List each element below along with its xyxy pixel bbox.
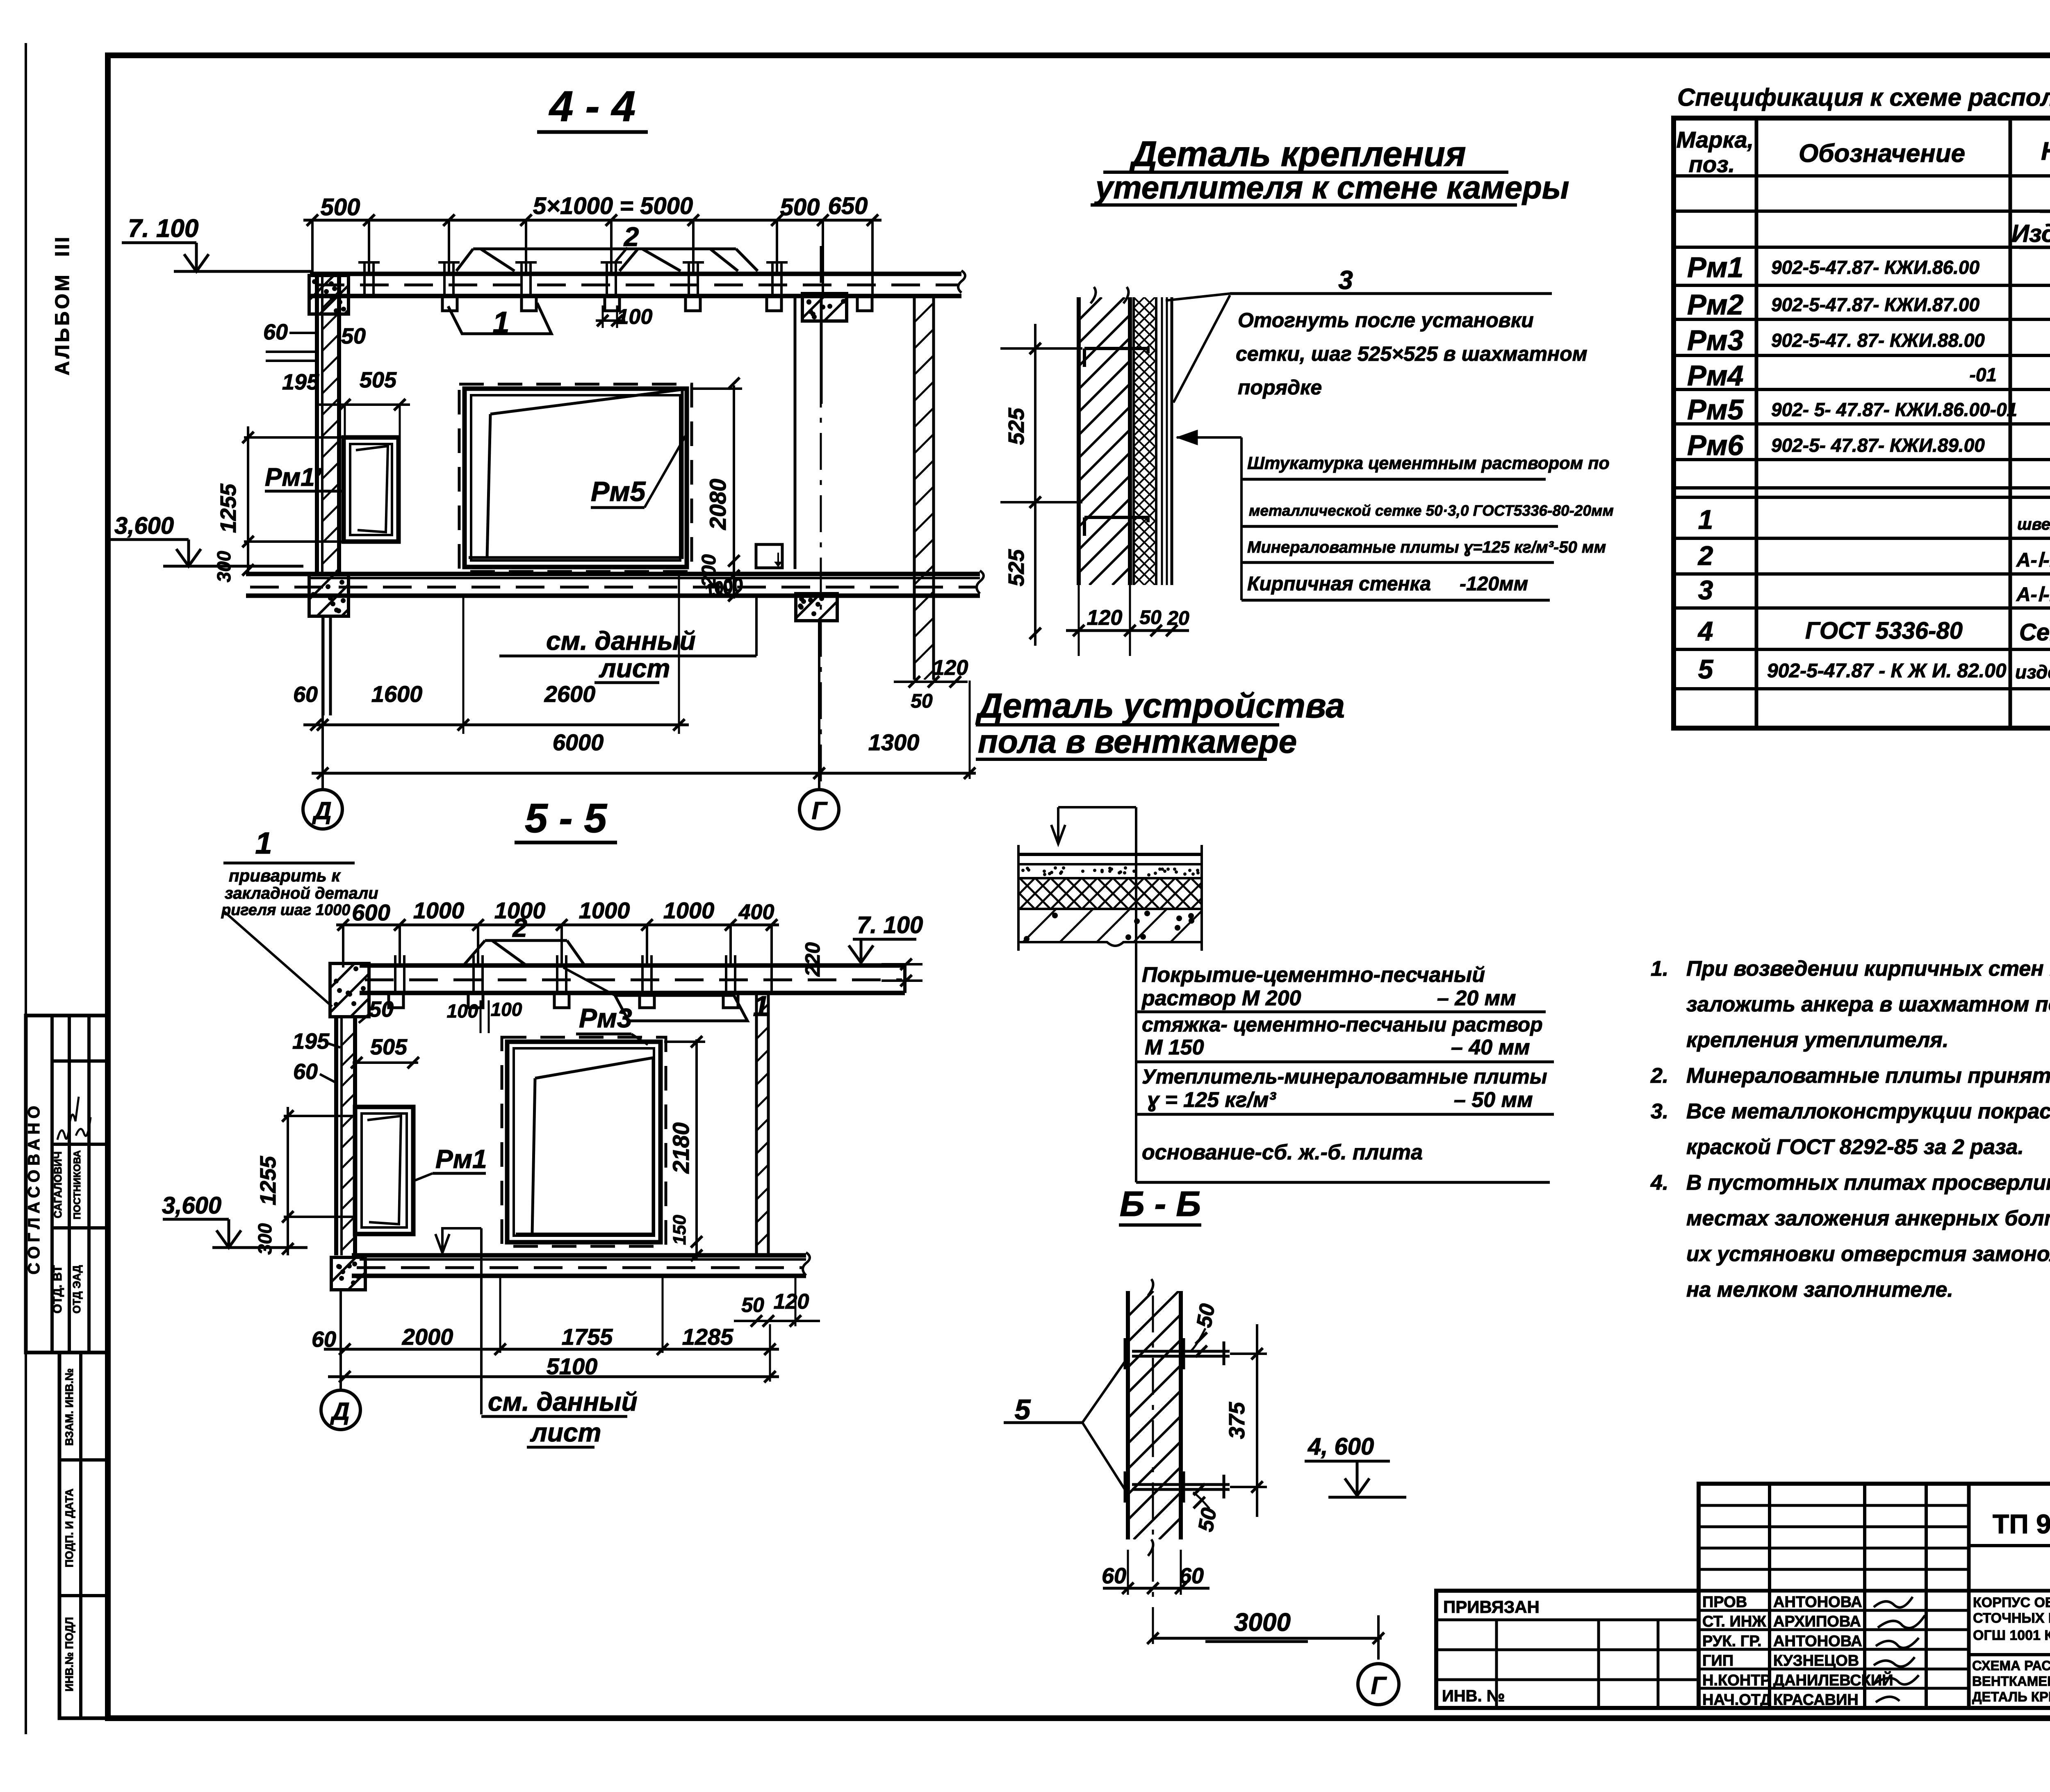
svg-text:60: 60 — [293, 682, 318, 707]
dims 60 / 60 (section Б-Б) — [1102, 1550, 1209, 1595]
svg-text:1000: 1000 — [663, 897, 715, 923]
left brick wall (section 4-4) — [37, 274, 642, 575]
svg-text:902-5-47.87- КЖИ.87.00: 902-5-47.87- КЖИ.87.00 — [1771, 294, 1980, 315]
level mark 3.600 (section 5-5) — [162, 1192, 307, 1248]
sheet edge line — [25, 43, 27, 1734]
ceiling slab (section 4-4) — [310, 271, 965, 296]
svg-text:60: 60 — [312, 1327, 336, 1352]
svg-text:– 20 мм: – 20 мм — [1437, 986, 1516, 1010]
vertical chain 1255 / 300 (section 5-5) — [254, 1107, 355, 1255]
svg-text:СХЕМА РАСПОЛОЖЕНИЯ ЭЛЕМЕНТОВ: СХЕМА РАСПОЛОЖЕНИЯ ЭЛЕМЕНТОВ — [1972, 1658, 2050, 1673]
section Б-Б title — [1119, 1184, 1201, 1225]
title block outer — [1436, 1484, 2050, 1708]
table row Изделие закладное — [2011, 220, 2050, 248]
svg-text:500: 500 — [321, 194, 360, 221]
svg-text:ОТД. ВТ: ОТД. ВТ — [51, 1265, 64, 1314]
svg-text:Б - Б: Б - Б — [1120, 1184, 1201, 1224]
svg-text:Все металлоконструкции покра: Все металлоконструкции покрасить масляно… — [1686, 1100, 2050, 1123]
label 2 with leader (section 4-4) — [615, 221, 639, 262]
см. данный лист note (section 5-5) — [435, 1228, 638, 1447]
svg-text:ОТД ЭАД: ОТД ЭАД — [71, 1265, 83, 1314]
floor slab (section 5-5) — [352, 1252, 810, 1276]
anchor bolt ticks on slab (section 5-5) — [395, 955, 735, 993]
svg-text:лист: лист — [530, 1418, 601, 1447]
top concrete pad on left wall — [271, 276, 408, 314]
notes list 1..4 — [1650, 957, 2050, 1302]
svg-text:525: 525 — [1004, 549, 1029, 586]
embedded frame Рм1 (section 5-5) — [355, 1107, 413, 1234]
anchor plate item 2 trapezoid (section 5-5) — [465, 913, 584, 964]
labels 100 100 (section 5-5) — [447, 999, 522, 1033]
svg-text:2: 2 — [1697, 540, 1713, 571]
specification table grid — [1674, 118, 2050, 728]
svg-text:Н.КОНТР: Н.КОНТР — [1702, 1672, 1771, 1689]
embedded frame Рм3 (section 5-5) — [502, 1037, 666, 1246]
svg-text:2600: 2600 — [544, 681, 596, 707]
vertical dim 2180 / 150 (section 5-5) — [664, 1036, 705, 1261]
svg-text:– 40 мм: – 40 мм — [1451, 1036, 1530, 1059]
svg-text:400: 400 — [738, 900, 774, 924]
arrow leader to plaster (detail) — [1177, 430, 1241, 600]
svg-text:поз.: поз. — [1689, 151, 1735, 177]
svg-text:III: III — [52, 235, 73, 257]
svg-text:СТОЧНЫХ ВОД С 5 ЦЕНТРИФУГАМИ: СТОЧНЫХ ВОД С 5 ЦЕНТРИФУГАМИ — [1973, 1610, 2050, 1626]
svg-text:местах заложения анкерных б: местах заложения анкерных болтов поз. 2.… — [1686, 1207, 2050, 1230]
note приварить к закладной детали (section 5-5) — [221, 826, 378, 1006]
svg-text:60: 60 — [263, 320, 288, 344]
table row pos 2 — [1697, 540, 2050, 571]
anchor plate item 2: trapezoid over slab — [456, 249, 758, 271]
svg-text:50: 50 — [369, 997, 394, 1022]
svg-text:Спецификация к схеме располож: Спецификация к схеме расположения элемен… — [1677, 84, 2050, 111]
label Рм1 with leader (section 5-5) — [414, 1144, 487, 1181]
axis circle Д (section 5-5) — [321, 1290, 360, 1430]
svg-text:2180: 2180 — [668, 1123, 694, 1174]
table row Рм4 — [1687, 360, 2050, 392]
svg-text:изделие закладное МН 2: изделие закладное МН 2 — [2015, 661, 2050, 683]
svg-text:Деталь устройства: Деталь устройства — [975, 686, 1345, 725]
svg-text:Рм6: Рм6 — [1687, 429, 1744, 461]
svg-text:1300: 1300 — [868, 729, 920, 755]
svg-text:120: 120 — [1087, 606, 1123, 630]
svg-text:Сетка 50-3,0: Сетка 50-3,0 — [2019, 619, 2050, 646]
svg-text:7. 100: 7. 100 — [857, 912, 923, 938]
svg-text:902-5-47.87 - К Ж И. 82.00: 902-5-47.87 - К Ж И. 82.00 — [1767, 660, 2007, 682]
svg-text:300: 300 — [254, 1223, 276, 1255]
column below floor (section 4-4) — [323, 616, 330, 715]
svg-text:1: 1 — [1698, 504, 1713, 535]
thin partition (section 4-4) — [795, 296, 821, 569]
см. данный лист note (section 4-4) — [499, 596, 756, 683]
svg-text:Рм1: Рм1 — [1687, 251, 1743, 283]
svg-text:220: 220 — [801, 942, 824, 977]
axis circle Г (section 4-4) — [799, 621, 839, 829]
dims 195 / 505 over frame — [282, 368, 410, 437]
dim 220 (section 5-5) — [801, 942, 922, 986]
svg-text:100: 100 — [447, 1000, 478, 1022]
anchor bolt 2 (section Б-Б) — [1125, 1471, 1230, 1503]
flag label 1 (section 4-4) — [448, 303, 551, 339]
dim row 5100 (section 5-5) — [328, 1324, 779, 1382]
svg-text:5 - 5: 5 - 5 — [525, 795, 607, 841]
svg-text:см. данный: см. данный — [488, 1387, 638, 1416]
embedded frame Рм1 (section 4-4) — [344, 437, 399, 542]
label Рм1&apos; with leader — [265, 463, 345, 492]
svg-text:ГОСТ 5336-80: ГОСТ 5336-80 — [1805, 617, 1963, 644]
svg-text:195: 195 — [282, 370, 319, 394]
svg-text:А-Ⅰ-Б-ГОСТ5781-82;ℓ=240: А-Ⅰ-Б-ГОСТ5781-82;ℓ=240 — [2016, 584, 2050, 606]
svg-text:600: 600 — [352, 899, 390, 925]
svg-text:375: 375 — [1225, 1402, 1249, 1439]
dim row 60 / 2000 / 1755 / 1285 (section 5-5) — [312, 1276, 779, 1355]
svg-text:3: 3 — [1338, 265, 1353, 295]
axis line (section Б-Б) — [1152, 1296, 1154, 1644]
svg-text:1.: 1. — [1651, 957, 1668, 981]
svg-text:3,600: 3,600 — [114, 512, 174, 539]
level mark 7.100 (section 4-4) — [122, 214, 312, 271]
anchor bolt 1 (section Б-Б) — [1125, 1338, 1230, 1369]
svg-text:1000: 1000 — [413, 897, 465, 923]
svg-text:НАЧ.ОТД: НАЧ.ОТД — [1702, 1692, 1771, 1709]
svg-text:М 150: М 150 — [1145, 1036, 1204, 1059]
svg-text:АНТОНОВА: АНТОНОВА — [1773, 1594, 1862, 1611]
detail wall: plaster mesh layer — [1162, 297, 1172, 585]
svg-text:Рм2: Рм2 — [1687, 289, 1743, 321]
svg-text:902-5- 47.87- КЖИ.89.00: 902-5- 47.87- КЖИ.89.00 — [1771, 435, 1985, 456]
label 3 with leaders (detail) — [1166, 265, 1552, 403]
svg-text:1285: 1285 — [682, 1324, 733, 1350]
svg-text:ДАНИЛЕВСКИЙ: ДАНИЛЕВСКИЙ — [1773, 1671, 1893, 1689]
right brick wall 120 (section 4-4) — [531, 296, 1334, 680]
svg-text:50: 50 — [341, 324, 366, 348]
svg-text:Рм1’: Рм1’ — [265, 463, 322, 492]
wall (section Б-Б) — [879, 1279, 1433, 1556]
labels 50 (section Б-Б) — [1191, 1302, 1220, 1357]
svg-text:порядке: порядке — [1238, 376, 1322, 399]
svg-text:см. данный: см. данный — [546, 626, 696, 656]
svg-text:3.: 3. — [1651, 1100, 1668, 1123]
svg-text:5100: 5100 — [547, 1353, 598, 1379]
axis circle Д (section 4-4) — [303, 616, 342, 829]
title block signature rows — [1699, 1594, 1969, 1709]
table row pos 1 (швеллер) — [1698, 500, 2050, 535]
svg-text:100: 100 — [491, 999, 522, 1020]
left brick wall (section 5-5) — [114, 1017, 588, 1255]
svg-text:ИНВ.№ ПОДЛ: ИНВ.№ ПОДЛ — [63, 1617, 75, 1692]
svg-text:Рм5: Рм5 — [1687, 394, 1744, 426]
dim 3000 with axis circle Г (section Б-Б) — [1147, 1608, 1399, 1705]
flag label 1 (section 5-5) — [563, 968, 769, 1022]
svg-text:краской ГОСТ 8292-85 за 2 р: краской ГОСТ 8292-85 за 2 раза. — [1686, 1135, 2024, 1159]
svg-text:50: 50 — [741, 1293, 764, 1316]
svg-text:2080: 2080 — [705, 479, 731, 531]
svg-text:1255: 1255 — [216, 483, 241, 533]
dim row 60 / 1600 / 2600 (section 4-4) — [293, 572, 689, 734]
svg-text:ригеля шаг 1000: ригеля шаг 1000 — [221, 902, 350, 919]
svg-text:ГИП: ГИП — [1702, 1652, 1733, 1669]
svg-text:Обозначение: Обозначение — [1799, 139, 1965, 168]
svg-text:ИНВ. №: ИНВ. № — [1442, 1687, 1505, 1705]
svg-text:-120мм: -120мм — [1460, 573, 1528, 595]
svg-text:на мелком заполнителе.: на мелком заполнителе. — [1686, 1278, 1953, 1302]
svg-text:Рм4: Рм4 — [1687, 360, 1743, 392]
floor detail layers — [986, 845, 1241, 951]
vertical chain 1255 / 300 (section 4-4) — [213, 426, 344, 582]
svg-text:50: 50 — [1192, 1302, 1220, 1329]
svg-text:швеллер: швеллер — [2017, 515, 2050, 533]
svg-text:195: 195 — [292, 1029, 330, 1054]
svg-text:Г: Г — [812, 797, 828, 824]
anchor bolt ticks on slab (section 4-4) — [358, 262, 788, 296]
svg-text:В пустотных плитах просверли: В пустотных плитах просверлить отверстия… — [1686, 1171, 2050, 1195]
svg-text:3: 3 — [1698, 575, 1713, 605]
section 4-4 title — [537, 82, 648, 132]
table row Венткамера — [2040, 182, 2050, 212]
svg-text:2000: 2000 — [402, 1324, 453, 1350]
svg-text:60: 60 — [1102, 1564, 1126, 1588]
svg-text:Изделие закладное: Изделие закладное — [2011, 220, 2050, 247]
label 5 with fork leader (section Б-Б) — [1004, 1359, 1127, 1492]
svg-text:Марка,: Марка, — [1676, 127, 1754, 153]
svg-text:Наименование: Наименование — [2041, 137, 2050, 166]
level mark 3.600 (section 4-4) — [109, 512, 303, 566]
svg-text:650: 650 — [828, 193, 868, 219]
dimension row 600 / 4x1000 / 400 (section 5-5) — [336, 897, 779, 993]
top right concrete pad (section 4-4) — [775, 294, 876, 321]
svg-text:5: 5 — [1015, 1394, 1031, 1425]
svg-text:50: 50 — [1194, 1506, 1221, 1533]
svg-text:КУЗНЕЦОВ: КУЗНЕЦОВ — [1773, 1652, 1859, 1669]
svg-text:7. 100: 7. 100 — [128, 214, 198, 243]
svg-text:1: 1 — [255, 826, 272, 860]
svg-text:ПОСТНИКОВА: ПОСТНИКОВА — [72, 1150, 83, 1220]
embedded frame Рм5 (section 4-4) — [459, 384, 692, 572]
svg-text:60: 60 — [293, 1059, 318, 1084]
svg-text:ВЕНТКАМЕРЫ. РАЗРЕЗЫ 4-4, 5-5: ВЕНТКАМЕРЫ. РАЗРЕЗЫ 4-4, 5-5 — [1972, 1674, 2050, 1689]
vertical dim 375 (section Б-Б) — [1225, 1324, 1267, 1517]
svg-text:120: 120 — [774, 1290, 809, 1314]
table row pos 3 — [1698, 575, 2050, 606]
dims 50 / 120 at right wall bottom (section 5-5) — [734, 1276, 820, 1327]
table row Рм3 — [1687, 324, 2050, 356]
left strip: СОГЛАСОВАНО table — [25, 1016, 108, 1353]
svg-text:их устяновки отверстия замо: их устяновки отверстия замонолитить бето… — [1686, 1242, 2050, 1266]
labels 50 / 195 / 505 / 60 (section 5-5) — [292, 997, 419, 1084]
hanger clips under slab (section 4-4) — [442, 296, 872, 311]
ceiling slab (section 5-5) — [360, 965, 905, 993]
svg-text:60: 60 — [1179, 1564, 1204, 1588]
svg-text:1: 1 — [492, 305, 509, 339]
labels 60 / 50 at wall top — [263, 320, 366, 361]
floor slab (section 4-4) — [246, 571, 984, 596]
svg-text:902- 5- 47.87- КЖИ.86.00-01: 902- 5- 47.87- КЖИ.86.00-01 — [1771, 399, 2017, 420]
svg-text:2.: 2. — [1650, 1064, 1668, 1088]
label 100 near clips (section 4-4) — [596, 305, 652, 329]
svg-text:СОГЛАСОВАНО: СОГЛАСОВАНО — [25, 1102, 43, 1274]
break marks at wall top — [1091, 287, 1129, 303]
material text lines (detail) — [1241, 453, 1614, 600]
table header texts — [1676, 127, 2050, 177]
svg-text:СТ. ИНЖ: СТ. ИНЖ — [1702, 1613, 1766, 1630]
reference box on floor (см. данный лист target) — [756, 544, 782, 568]
svg-text:2: 2 — [512, 913, 527, 943]
svg-text:ДЕТАЛЬ КРЕПЛЕНИЯ УТЕПЛИТЕЛЯ.: ДЕТАЛЬ КРЕПЛЕНИЯ УТЕПЛИТЕЛЯ. — [1972, 1689, 2050, 1704]
svg-text:крепления утеплителя.: крепления утеплителя. — [1686, 1028, 1948, 1052]
svg-text:50: 50 — [911, 690, 933, 712]
svg-text:Утеплитель-минераловатные пли: Утеплитель-минераловатные плиты — [1142, 1065, 1547, 1088]
anchor hooks in detail wall — [1084, 348, 1148, 536]
level mark 4.600 (section Б-Б) — [1305, 1433, 1406, 1497]
svg-text:ОГШ 1001 К - 01: ОГШ 1001 К - 01 — [1973, 1628, 2050, 1643]
svg-text:– 50 мм: – 50 мм — [1454, 1088, 1533, 1112]
table row Рм6 — [1687, 429, 2050, 461]
level mark 7.100 (section 5-5) — [849, 912, 923, 963]
svg-text:3,600: 3,600 — [162, 1192, 221, 1219]
table row pos 4 (Сетка) — [1697, 616, 2050, 646]
title block left part ПРИВЯЗАН — [1436, 1597, 1699, 1708]
title block project name cell — [1969, 1591, 2050, 1708]
svg-text:металлической сетке 50·3,0 ГОС: металлической сетке 50·3,0 ГОСТ5336-80-2… — [1249, 502, 1614, 519]
leader bracket (floor detail) — [1051, 807, 1136, 962]
svg-text:РУК. ГР.: РУК. ГР. — [1702, 1633, 1762, 1650]
dim row 6000 / 1300 (section 4-4) — [312, 681, 976, 779]
left strip: ВЗАМ.ИНВ / ПОДП. И ДАТА / ИНВ.№ПОДЛ — [59, 1353, 108, 1718]
svg-text:505: 505 — [360, 368, 397, 392]
svg-text:4: 4 — [1697, 616, 1713, 646]
axis Г dash-dot line (section 4-4) — [820, 246, 822, 791]
table row Рм1 — [1687, 251, 2050, 283]
title block upper revision grid — [1699, 1484, 2050, 1708]
svg-text:Г: Г — [1371, 1672, 1387, 1699]
table row Рм2 — [1687, 289, 2050, 321]
АЛЬБОМ III vertical label — [52, 235, 73, 376]
svg-text:Рм5: Рм5 — [591, 476, 646, 507]
svg-text:1255: 1255 — [256, 1156, 280, 1205]
svg-text:902-5-47. 87- КЖИ.88.00: 902-5-47. 87- КЖИ.88.00 — [1771, 330, 1985, 351]
svg-text:4 - 4: 4 - 4 — [549, 82, 635, 130]
bottom dims 120 / 50 / 20 (detail) — [1066, 585, 1189, 656]
svg-text:-01: -01 — [1970, 364, 1997, 385]
svg-text:КРАСАВИН: КРАСАВИН — [1773, 1692, 1859, 1709]
svg-text:Д: Д — [312, 797, 331, 824]
top concrete pad (section 5-5) — [277, 963, 428, 1017]
right wall (section 5-5) — [494, 993, 1032, 1255]
svg-text:150: 150 — [670, 1215, 690, 1245]
svg-text:ПРОВ: ПРОВ — [1702, 1594, 1747, 1611]
label Рм3 with leader (section 5-5) — [576, 1003, 648, 1045]
detail wall: brick layer — [791, 297, 1423, 585]
svg-text:ɣ = 125 кг/м³: ɣ = 125 кг/м³ — [1147, 1088, 1276, 1112]
svg-text:525: 525 — [1004, 408, 1029, 445]
svg-text:При возведении кирпичных ст: При возведении кирпичных стен венткамеры — [1686, 957, 2050, 981]
section 5-5 title — [515, 795, 617, 842]
svg-text:сетки, шаг 525×525 в шахматном: сетки, шаг 525×525 в шахматном — [1236, 342, 1588, 365]
svg-text:902-5-47.87- КЖИ.86.00: 902-5-47.87- КЖИ.86.00 — [1771, 257, 1980, 278]
svg-text:Рм3: Рм3 — [579, 1003, 632, 1033]
svg-text:Рм1: Рм1 — [435, 1144, 487, 1174]
svg-text:ТП 902-5-47.87: ТП 902-5-47.87 — [1993, 1509, 2050, 1539]
floor layer text lines — [1136, 962, 1554, 1182]
svg-text:6000: 6000 — [553, 729, 604, 755]
vertical dim 2080 / 200 / 100 (section 4-4) — [693, 378, 742, 601]
bottom concrete pad (section 5-5) — [299, 1257, 405, 1290]
svg-text:А-Ⅰ-Б-ГОСТ5781-82;ℓ=400: А-Ⅰ-Б-ГОСТ5781-82;ℓ=400 — [2016, 549, 2050, 571]
svg-text:заложить анкера в шахматном: заложить анкера в шахматном порядке для — [1686, 993, 2050, 1016]
svg-text:пола в венткамере: пола в венткамере — [978, 723, 1297, 760]
svg-text:Штукатурка цементным раствором: Штукатурка цементным раствором по — [1247, 453, 1610, 473]
svg-text:4, 600: 4, 600 — [1307, 1433, 1374, 1460]
svg-text:Минераловатные плиты приняты: Минераловатные плиты приняты по ГОСТУ 95… — [1686, 1064, 2050, 1088]
title block: ТП 902-5-47.87 cell — [1969, 1508, 2050, 1546]
svg-text:Рм3: Рм3 — [1687, 324, 1743, 356]
svg-text:300: 300 — [213, 551, 235, 582]
svg-text:АЛЬБОМ: АЛЬБОМ — [52, 272, 73, 375]
svg-text:основание-сб. ж.-б. плита: основание-сб. ж.-б. плита — [1142, 1141, 1423, 1164]
svg-text:лист: лист — [599, 653, 670, 683]
svg-text:Д: Д — [330, 1398, 349, 1425]
svg-text:КОРПУС ОБЕЗВОЖИВАНИЯ ОСАДКА: КОРПУС ОБЕЗВОЖИВАНИЯ ОСАДКА — [1973, 1595, 2050, 1610]
svg-text:АНТОНОВА: АНТОНОВА — [1773, 1633, 1862, 1650]
right concrete pad at floor (section 4-4) — [769, 594, 870, 621]
hanger clips under slab (section 5-5) — [389, 993, 738, 1008]
svg-text:500: 500 — [780, 194, 820, 221]
vertical dim 525 / 525 (detail) — [1000, 324, 1082, 646]
svg-text:АРХИПОВА: АРХИПОВА — [1773, 1613, 1861, 1630]
svg-text:утеплителя к стене камеры: утеплителя к стене камеры — [1094, 169, 1569, 205]
svg-text:Покрытие-цементно-песчаный: Покрытие-цементно-песчаный — [1142, 963, 1485, 987]
detail wall: insulation layer — [846, 297, 1453, 585]
text Отогнуть после установки сетки (detail) — [1236, 309, 1588, 399]
svg-text:ПОДП. И ДАТА: ПОДП. И ДАТА — [63, 1489, 75, 1567]
svg-text:5: 5 — [1698, 654, 1714, 684]
dimension row 500 / 5x1000=5000 / 500 / 650 (section 4-4) — [303, 193, 881, 294]
detail title: Деталь крепления утеплителя к стене камеры — [1091, 134, 1569, 205]
svg-text:стяжка- цементно-песчаныи раст: стяжка- цементно-песчаныи раствор — [1142, 1013, 1543, 1036]
svg-text:5×1000 = 5000: 5×1000 = 5000 — [533, 193, 693, 219]
svg-text:1600: 1600 — [371, 681, 423, 707]
label Рм5 with leader — [591, 436, 686, 508]
svg-text:50: 50 — [1139, 607, 1162, 628]
svg-text:20: 20 — [1167, 608, 1189, 629]
svg-text:Кирпичная стенка: Кирпичная стенка — [1247, 573, 1431, 595]
table row Рм5 — [1687, 394, 2050, 426]
svg-text:1755: 1755 — [562, 1324, 613, 1350]
svg-text:ВЗАМ. ИНВ.№: ВЗАМ. ИНВ.№ — [63, 1368, 75, 1446]
svg-text:505: 505 — [370, 1035, 408, 1059]
svg-text:Деталь крепления: Деталь крепления — [1129, 134, 1466, 174]
svg-text:ПРИВЯЗАН: ПРИВЯЗАН — [1443, 1597, 1540, 1617]
svg-text:2: 2 — [623, 221, 639, 252]
svg-text:САГАЛОВИЧ: САГАЛОВИЧ — [52, 1151, 64, 1218]
svg-text:3000: 3000 — [1234, 1608, 1291, 1637]
table row pos 5 (МН2) — [1698, 653, 2050, 689]
svg-text:Минераловатные плиты ɣ=125 кг/: Минераловатные плиты ɣ=125 кг/м³-50 мм — [1247, 538, 1606, 556]
svg-text:Отогнуть после установки: Отогнуть после установки — [1238, 309, 1534, 332]
svg-text:4.: 4. — [1650, 1171, 1668, 1195]
svg-text:раствор М 200: раствор М 200 — [1141, 986, 1301, 1010]
dims 120 / 50 at right wall bottom — [894, 656, 968, 712]
detail title: Деталь устройства пола в венткамере — [975, 686, 1345, 760]
svg-text:приварить к: приварить к — [229, 866, 341, 885]
svg-text:1000: 1000 — [579, 897, 630, 923]
bottom concrete pad on left wall — [268, 575, 408, 616]
